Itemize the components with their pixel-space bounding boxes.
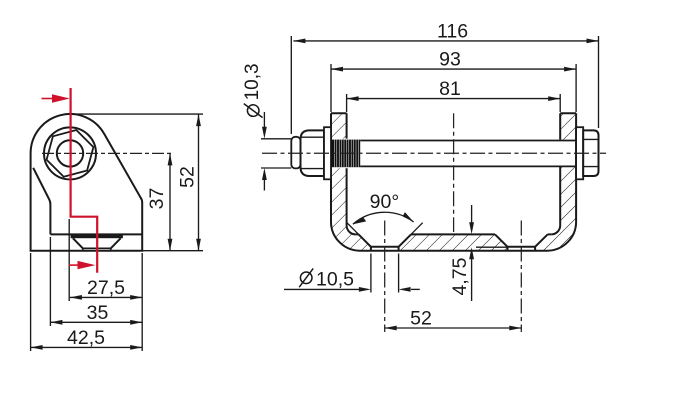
countersink slant right <box>111 238 121 248</box>
right nut <box>583 130 598 176</box>
right washer <box>576 127 583 179</box>
right hole centerline <box>520 221 522 333</box>
head facet lines <box>301 137 325 168</box>
left washer <box>324 127 331 179</box>
svg-text:90°: 90° <box>370 191 400 213</box>
countersink slant extensions (for 90° dim) <box>347 223 423 235</box>
dimension 37 <box>168 153 173 250</box>
inner bottom surface <box>356 233 552 235</box>
dimension 4,75 <box>469 205 507 301</box>
wall top caps <box>331 112 576 114</box>
bottom extension lines <box>31 219 143 351</box>
bolt hole inner circle <box>57 140 83 166</box>
threaded section <box>331 140 360 168</box>
part vertical centerline <box>453 113 455 232</box>
red section arrows <box>52 94 70 102</box>
dimension 93 <box>331 64 576 112</box>
red section line <box>42 88 98 273</box>
extension line top of part (for 52) <box>72 113 203 115</box>
bolt axis centerline <box>262 152 606 154</box>
svg-text:10,5: 10,5 <box>316 268 354 290</box>
countersink slant left <box>73 238 83 248</box>
countersink top thick bar <box>71 235 123 239</box>
right hole countersink edges <box>495 234 548 250</box>
white-out left countersunk hole <box>359 234 411 250</box>
bracket outline left view <box>31 114 143 251</box>
svg-text:52: 52 <box>177 166 199 188</box>
svg-text:37: 37 <box>146 188 168 210</box>
dimension 52 (bottom) <box>385 326 522 331</box>
bolt hex head body <box>301 130 325 176</box>
label diameter 10,3 with symbol <box>242 63 263 117</box>
left hole countersink edges <box>359 234 411 250</box>
dimension 52 (left view) <box>196 114 201 251</box>
outer contour <box>331 113 576 250</box>
horizontal centerline of hole <box>42 152 174 154</box>
dimension 27,5 <box>70 295 142 300</box>
svg-text:35: 35 <box>87 302 109 324</box>
svg-text:27,5: 27,5 <box>87 277 125 299</box>
extension line bottom right (for 37/52) <box>142 250 203 252</box>
right wall inner face <box>551 113 560 234</box>
white-out bolt passes through walls <box>329 139 349 169</box>
dimension 42,5 <box>31 345 143 350</box>
dimension Ø10,5 <box>284 254 420 293</box>
dimension 90° <box>353 212 414 224</box>
label diameter 10,5 with symbol <box>299 268 354 290</box>
nut facet lines <box>583 139 598 166</box>
svg-text:93: 93 <box>439 49 461 71</box>
nut hexagon <box>47 130 94 177</box>
svg-text:42,5: 42,5 <box>67 327 105 349</box>
white-out right countersunk hole <box>495 234 548 250</box>
left wall inner face <box>347 113 356 234</box>
svg-text:4,75: 4,75 <box>449 257 471 295</box>
dimension 81 <box>347 94 561 112</box>
nut outer circle <box>44 127 96 179</box>
dimension 35 <box>50 320 142 325</box>
bolt shank <box>360 141 576 167</box>
left hole centerline <box>384 221 386 333</box>
svg-text:10,3: 10,3 <box>242 63 263 100</box>
countersink bottom edge <box>83 248 111 250</box>
svg-text:116: 116 <box>437 21 468 43</box>
channel section material with hatching <box>331 113 576 250</box>
dimension Ø10,3 <box>261 112 291 191</box>
channel outline <box>331 113 576 250</box>
dimension 116 <box>291 36 598 134</box>
inner bend profile line <box>33 168 50 235</box>
base top edge <box>50 233 142 235</box>
svg-text:81: 81 <box>439 78 461 100</box>
svg-text:52: 52 <box>410 307 432 329</box>
bolt head chamfered cap <box>291 137 300 169</box>
